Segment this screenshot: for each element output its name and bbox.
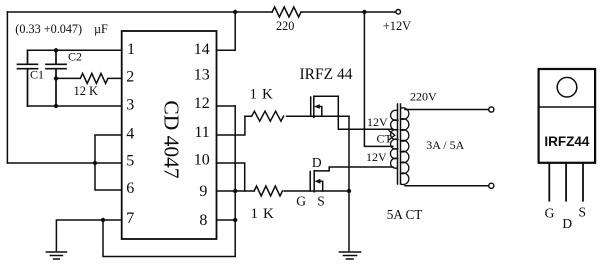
transistor Q1 channel bar	[313, 96, 315, 117]
pin labels right	[194, 41, 210, 229]
wire secondary top lead	[405, 109, 489, 111]
wire pin3 bottom cap wire	[28, 105, 122, 107]
transistor Q2 bottom MOSFET gate bar	[309, 172, 311, 192]
svg-text:8: 8	[199, 212, 207, 229]
capacitor C1	[18, 50, 38, 106]
svg-text:12V: 12V	[366, 150, 387, 164]
wire secondary bottom lead	[405, 185, 489, 187]
junction dot C2 top	[54, 48, 58, 52]
resistor 12K	[56, 73, 122, 83]
transformer T1 core	[398, 104, 401, 184]
capacitor C2	[46, 50, 66, 106]
wire pin12 stub	[217, 105, 236, 107]
ground left	[46, 252, 66, 259]
wire top gate-source line	[287, 115, 349, 117]
svg-text:G: G	[296, 194, 306, 209]
wire pin11 step up	[217, 116, 245, 135]
wire pin8 stub	[217, 219, 236, 221]
wire sources to ground rail	[348, 116, 350, 250]
svg-text:5A CT: 5A CT	[387, 207, 423, 222]
node secondary bottom terminal	[489, 183, 494, 188]
svg-text:3: 3	[126, 97, 134, 114]
junction dot pin14 riser	[233, 10, 237, 14]
transistor package IRFZ44 TO-220 outline	[539, 69, 596, 163]
svg-text:G: G	[545, 206, 555, 221]
junction dot Q2 source	[347, 189, 351, 193]
CT arrow	[389, 131, 395, 140]
svg-text:D: D	[312, 155, 322, 170]
svg-text:1 K: 1 K	[251, 206, 275, 222]
junction dot pin8	[233, 218, 237, 222]
wire top supply rail	[7, 11, 395, 13]
junction dot CT riser	[362, 10, 366, 14]
junction dot C2 bottom	[54, 104, 58, 108]
transistor Q1 drain lead	[314, 96, 393, 129]
svg-text:1 K: 1 K	[250, 86, 274, 102]
wire pin5 from left rail	[7, 162, 121, 164]
wire pins 4-6 strap	[95, 135, 122, 190]
transistor Q2 drain lead	[314, 167, 393, 171]
ground center	[340, 252, 361, 259]
svg-text:7: 7	[126, 210, 134, 227]
wire pin14 riser	[217, 12, 236, 50]
svg-text:12 K: 12 K	[74, 84, 98, 98]
svg-text:3A / 5A: 3A / 5A	[426, 138, 464, 152]
svg-text:+12V: +12V	[383, 19, 411, 33]
svg-text:11: 11	[194, 124, 209, 141]
junction dot pin5	[93, 161, 97, 165]
svg-text:12: 12	[194, 95, 210, 112]
svg-text:µF: µF	[94, 22, 108, 36]
svg-text:13: 13	[194, 67, 210, 84]
svg-text:S: S	[579, 205, 587, 220]
svg-text:IRFZ44: IRFZ44	[544, 134, 590, 149]
node secondary top terminal	[489, 107, 494, 112]
junction dot 12K tap	[54, 76, 58, 80]
svg-text:5: 5	[126, 153, 134, 170]
svg-text:220: 220	[276, 19, 294, 33]
wire +12V to CT	[364, 12, 393, 146]
svg-text:D: D	[562, 216, 572, 231]
wire ground return loop	[103, 106, 235, 257]
svg-text:220V: 220V	[410, 90, 437, 104]
pin labels left	[126, 41, 135, 227]
op-amp U1 CD4047 IC body	[122, 31, 217, 239]
svg-text:1: 1	[127, 41, 135, 58]
svg-text:14: 14	[194, 41, 210, 58]
wire pin1 top cap wire	[28, 49, 122, 51]
wire pin9 to resistor	[217, 190, 255, 192]
svg-text:(0.33 +0.047): (0.33 +0.047)	[15, 22, 82, 36]
transistor Q2 channel bar	[313, 171, 315, 192]
resistor 220	[272, 7, 301, 17]
svg-text:C2: C2	[68, 50, 82, 64]
junction dot pin7	[101, 218, 105, 222]
transformer T1 secondary winding	[401, 108, 409, 185]
junction dot pin9	[233, 189, 237, 193]
resistor 1K top	[245, 111, 284, 121]
wire left outer rail	[6, 12, 8, 163]
transistor Q1 top MOSFET gate bar	[310, 97, 312, 116]
node +12V terminal	[396, 10, 401, 15]
svg-text:9: 9	[199, 183, 207, 200]
svg-text:12V: 12V	[367, 115, 388, 129]
package leg G	[548, 163, 550, 201]
wire bottom gate-source line	[284, 190, 349, 192]
svg-text:CD 4047: CD 4047	[160, 100, 184, 178]
svg-text:10: 10	[194, 152, 210, 169]
resistor 1K bottom	[254, 186, 282, 196]
transistor Q1 body arrow	[316, 107, 322, 117]
svg-text:S: S	[317, 194, 325, 209]
wire pin10 step down	[217, 163, 245, 191]
svg-text:IRFZ 44: IRFZ 44	[300, 66, 353, 83]
svg-text:6: 6	[126, 180, 134, 197]
transistor Q2 body arrow	[317, 181, 323, 191]
wire pin7 ground wire	[56, 220, 121, 251]
transformer T1 primary winding	[390, 110, 397, 168]
package mounting hole	[557, 77, 577, 97]
package divider line	[539, 106, 596, 108]
package leg S	[582, 163, 584, 201]
svg-text:2: 2	[126, 69, 134, 86]
svg-text:4: 4	[126, 126, 134, 143]
package leg D	[565, 163, 567, 201]
svg-text:C1: C1	[30, 68, 44, 82]
